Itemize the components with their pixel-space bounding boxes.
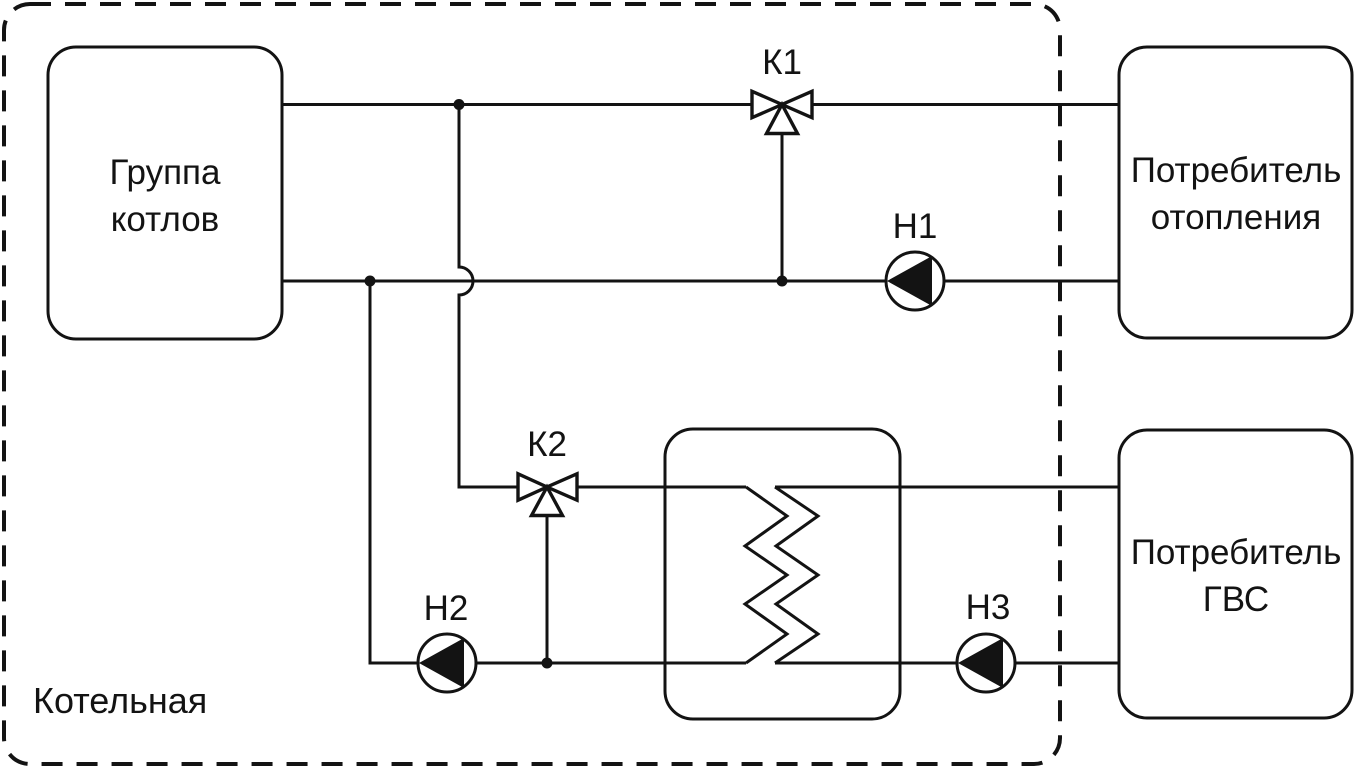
pump H1 (heating circuit pump) [886,252,944,310]
svg-text:Н2: Н2 [424,589,469,628]
junction: return line / K1 stem [777,276,788,287]
block: DHW consumer box [1119,430,1352,718]
junction: return line / H2 branch [365,276,376,287]
pump H3 (DHW circulation pump) [957,634,1015,692]
svg-text:отопления: отопления [1151,198,1321,237]
block: boiler group box [48,47,282,339]
svg-text:К1: К1 [762,43,802,82]
svg-text:котлов: котлов [111,200,220,239]
svg-text:Н3: Н3 [966,588,1011,627]
wire: pump H2 to heat exchanger (bottom DHW line, left part) [477,662,746,665]
valve K2 (three-way valve on HX primary line) [518,474,577,516]
wire: supply line from boiler group to heating consumer [282,103,1119,106]
svg-text:Котельная: Котельная [33,680,207,721]
pump H2 (HX primary pump) [418,634,476,692]
svg-text:Н1: Н1 [893,207,938,246]
junction: supply line / K2 branch [454,99,465,110]
svg-text:ГВС: ГВС [1203,580,1269,619]
valve K1 (three-way valve on supply line) [752,91,812,133]
svg-text:Потребитель: Потребитель [1131,151,1342,190]
svg-text:К2: К2 [527,425,567,464]
wire: return branch down from return line to pump H2 [370,281,417,663]
heat exchanger coil, right zigzag strand [775,487,818,663]
wire: heat exchanger to pump H3 and DHW consumer (bottom DHW line, right part) [775,662,1119,665]
heat exchanger body [665,429,900,719]
wire: K1 actuator stem down to return line junction [781,134,784,281]
svg-text:Группа: Группа [110,153,221,192]
block: heating consumer box [1119,47,1352,338]
wire: K2 actuator stem down to DHW bottom line junction [546,516,549,663]
heat exchanger coil, left zigzag strand [745,487,787,663]
wire: return line from heating consumer to boiler group [282,280,1119,283]
boiler-room boundary (dashed frame) [4,4,1060,764]
wire: valve K2 to heat exchanger (left part of HX top line) [578,486,746,489]
junction: DHW bottom line / K2 stem [542,658,553,669]
wire: vertical branch from supply junction down to valve K2, with hop over return line [459,105,517,488]
svg-text:Потребитель: Потребитель [1131,533,1342,572]
wire: heat exchanger to DHW consumer (right part of HX top line) [775,486,1119,489]
